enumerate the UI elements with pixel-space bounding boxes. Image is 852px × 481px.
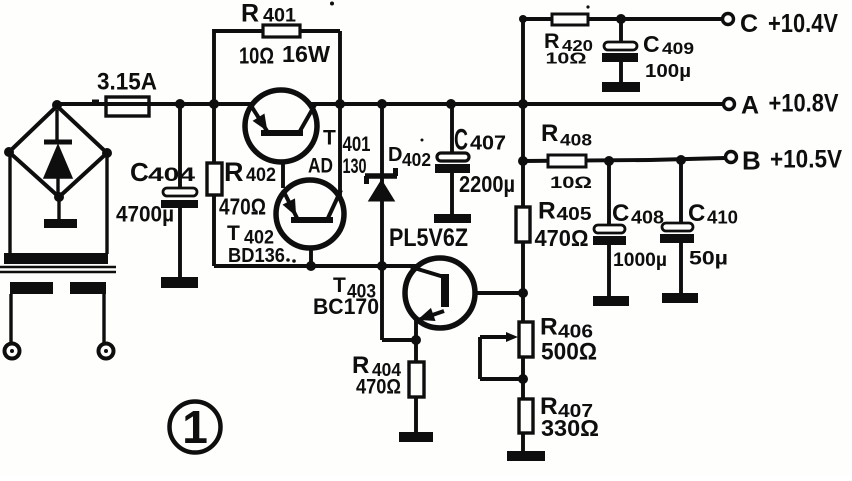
svg-text:R: R <box>544 29 560 53</box>
figure number 1 circle <box>170 401 221 453</box>
node C407 rail <box>446 99 456 109</box>
label R407 <box>540 393 593 421</box>
resistor R405 body <box>516 207 530 242</box>
svg-text:+10.8V: +10.8V <box>769 90 839 118</box>
wire R406 wiper link <box>480 337 523 379</box>
node D402 bottom link <box>377 261 387 271</box>
svg-text:410: 410 <box>707 208 738 228</box>
svg-text:+10.5V: +10.5V <box>770 146 842 174</box>
node D402 rail <box>377 99 387 109</box>
terminal B <box>726 152 737 163</box>
label terminal B +10.5V <box>742 146 842 176</box>
svg-text:402: 402 <box>402 150 431 170</box>
node C408 top <box>604 156 614 166</box>
node diamond bottom <box>54 192 64 202</box>
svg-text:R: R <box>241 0 259 28</box>
svg-text:R: R <box>224 157 244 187</box>
svg-text:C: C <box>130 157 149 187</box>
svg-text:405: 405 <box>557 203 592 224</box>
ground R404 <box>399 432 433 442</box>
ground bridge <box>44 197 77 228</box>
svg-text:50µ: 50µ <box>689 249 728 270</box>
svg-text:3.15A: 3.15A <box>97 69 157 96</box>
svg-text:4700µ: 4700µ <box>116 202 174 227</box>
wire right bus vertical <box>521 19 525 451</box>
label R401 <box>241 0 296 28</box>
svg-text:470Ω: 470Ω <box>535 225 589 251</box>
junction node dots <box>4 14 686 384</box>
svg-text:330Ω: 330Ω <box>541 415 599 441</box>
wire C410 stub <box>679 160 683 296</box>
label D402 <box>388 144 431 170</box>
wire bottom link horizontal <box>214 264 424 268</box>
node diamond top <box>52 100 62 110</box>
terminal C <box>723 14 734 25</box>
label R402 <box>224 157 276 187</box>
label C404 value 4700u <box>116 202 174 227</box>
label R405 value 470 ohm <box>535 225 589 251</box>
ground R407 <box>507 451 545 461</box>
ground C410 <box>662 293 698 303</box>
svg-text:2200µ: 2200µ <box>459 171 515 197</box>
svg-text:470Ω: 470Ω <box>356 376 401 399</box>
svg-text:470Ω: 470Ω <box>219 194 266 220</box>
svg-text:+10.4V: +10.4V <box>768 8 839 38</box>
node bus rail A <box>518 99 528 109</box>
svg-text:130: 130 <box>343 155 367 178</box>
resistor R407 body <box>519 399 533 433</box>
transformer TR1 <box>0 152 116 344</box>
resistor R401 body <box>263 25 300 37</box>
wire T402 collector vertical <box>338 104 342 196</box>
fuse F 3.15A <box>106 97 149 116</box>
svg-text:408: 408 <box>560 131 592 150</box>
svg-text:C: C <box>612 200 629 227</box>
svg-text:408: 408 <box>631 208 664 228</box>
svg-text:BC170: BC170 <box>313 294 379 319</box>
resistor R420 body <box>552 14 588 25</box>
terminal transformer right <box>99 344 114 359</box>
label T402 <box>227 222 274 249</box>
svg-text:10Ω: 10Ω <box>239 43 274 69</box>
svg-text:T: T <box>323 127 336 150</box>
svg-text:10Ω: 10Ω <box>546 51 587 68</box>
label R408 <box>541 120 592 150</box>
svg-text:PL5V6Z: PL5V6Z <box>389 224 468 252</box>
label C407 <box>454 124 506 157</box>
node C404 rail <box>175 99 185 109</box>
svg-text:401: 401 <box>343 133 371 156</box>
wire C404 stub <box>178 104 182 280</box>
bridge diode symbol <box>44 110 72 196</box>
wire R401 top loop <box>214 31 340 104</box>
transistor T402 <box>276 180 344 248</box>
ground C407 <box>434 214 471 223</box>
resistor R408 body <box>548 155 586 167</box>
label fuse 3.15A <box>97 69 157 96</box>
node bus rail B <box>518 156 528 166</box>
label T402 type BD136 <box>228 245 296 267</box>
capacitor C408 <box>593 225 626 245</box>
transistor T403 <box>405 258 475 328</box>
svg-text:404: 404 <box>148 165 196 186</box>
node T403 base bus <box>518 288 528 298</box>
label terminal A +10.8V <box>741 90 839 120</box>
svg-text:500Ω: 500Ω <box>541 338 597 365</box>
bridge rectifier diamond <box>9 106 107 197</box>
terminal A <box>724 99 735 110</box>
node R401 left rail <box>209 99 219 109</box>
svg-text:R: R <box>538 198 556 225</box>
node C409 top <box>616 14 626 24</box>
svg-text:R: R <box>541 120 558 147</box>
label T401 type AD130 <box>308 155 367 179</box>
node diamond right <box>102 148 112 158</box>
node bus rail C corner <box>519 15 527 23</box>
label C408 value 1000u <box>613 250 667 271</box>
wire C407 stub <box>450 104 454 218</box>
wire C408 stub <box>607 161 611 299</box>
node R401 right rail <box>335 99 345 109</box>
wire D402 branch vertical <box>382 104 416 340</box>
wire R402 branch vertical <box>212 104 216 266</box>
label C410 <box>688 200 738 228</box>
svg-text:R: R <box>540 313 558 340</box>
label C407 value 2200u <box>459 171 515 197</box>
label D402 type PL5V6Z <box>389 224 468 252</box>
label T401 <box>323 127 371 157</box>
label T403 type BC170 <box>313 294 379 319</box>
label R405 <box>538 198 592 225</box>
ground C409 <box>602 82 640 92</box>
label R404 value 470 ohm <box>356 376 401 399</box>
svg-text:10Ω: 10Ω <box>550 173 592 192</box>
svg-text:C: C <box>643 31 660 57</box>
capacitor C409 <box>602 42 638 62</box>
scan specks <box>92 2 590 212</box>
capacitor C407 <box>435 153 470 173</box>
label terminal C +10.4V <box>740 8 839 38</box>
label R420 value 10 ohm <box>546 51 587 68</box>
node diamond left <box>4 147 14 157</box>
svg-text:C: C <box>740 10 758 38</box>
resistor R402 body <box>207 163 222 195</box>
label R406 <box>540 313 593 341</box>
label R407 value 330 ohm <box>541 415 599 441</box>
wire C409 stub <box>619 19 623 85</box>
node T402 base bottom <box>306 261 316 271</box>
label R420 <box>544 29 593 55</box>
label R402 value 470 ohm <box>219 194 266 220</box>
capacitor C410 <box>660 223 694 243</box>
node T403 emitter junction <box>411 335 421 345</box>
label C409 <box>643 31 694 58</box>
label R404 <box>352 352 401 380</box>
wire T401 base to T402 <box>281 136 285 188</box>
label C404 <box>130 157 196 187</box>
label C408 <box>612 200 664 228</box>
svg-text:401: 401 <box>263 6 296 27</box>
label T403 <box>333 274 376 303</box>
svg-text:100µ: 100µ <box>645 61 691 81</box>
label C410 value 50u <box>689 249 728 270</box>
svg-text:T: T <box>227 222 240 245</box>
label R408 value 10 ohm <box>550 173 592 192</box>
svg-text:D: D <box>388 144 402 166</box>
label R406 value 500 ohm <box>541 338 597 365</box>
svg-text:407: 407 <box>470 132 506 155</box>
svg-text:409: 409 <box>662 40 694 58</box>
wire T403 emitter to R404 <box>414 318 418 432</box>
svg-text:B: B <box>742 146 761 176</box>
svg-text:A: A <box>741 92 759 120</box>
capacitor C404 <box>161 188 198 208</box>
transistor T401 <box>245 90 317 162</box>
resistor R404 body <box>409 362 424 397</box>
svg-text:402: 402 <box>246 165 276 186</box>
ground C408 <box>593 296 629 306</box>
label R401 value 10ohm 16W <box>239 41 330 69</box>
wire T402 base stem <box>309 224 313 266</box>
terminal transformer left <box>5 344 20 359</box>
node R406 wiper bus <box>518 374 528 384</box>
diode D402 zener <box>365 168 397 201</box>
ground C404 <box>161 277 198 288</box>
svg-text:16W: 16W <box>282 41 330 67</box>
svg-text:1: 1 <box>182 401 208 453</box>
label C409 value 100u <box>645 61 691 81</box>
resistor R406 body potentiometer <box>506 322 533 357</box>
svg-text:1000µ: 1000µ <box>613 250 667 271</box>
svg-text:C: C <box>688 200 705 227</box>
node C410 top <box>676 155 686 165</box>
svg-text:BD136: BD136 <box>228 245 285 267</box>
wire main rail A horizontal <box>57 102 723 106</box>
wire rail B horizontal <box>523 158 725 161</box>
svg-text:C: C <box>454 124 468 157</box>
wire top rail C horizontal <box>523 17 722 21</box>
wire T403 base horizontal <box>449 291 523 295</box>
svg-text:AD: AD <box>308 155 333 178</box>
